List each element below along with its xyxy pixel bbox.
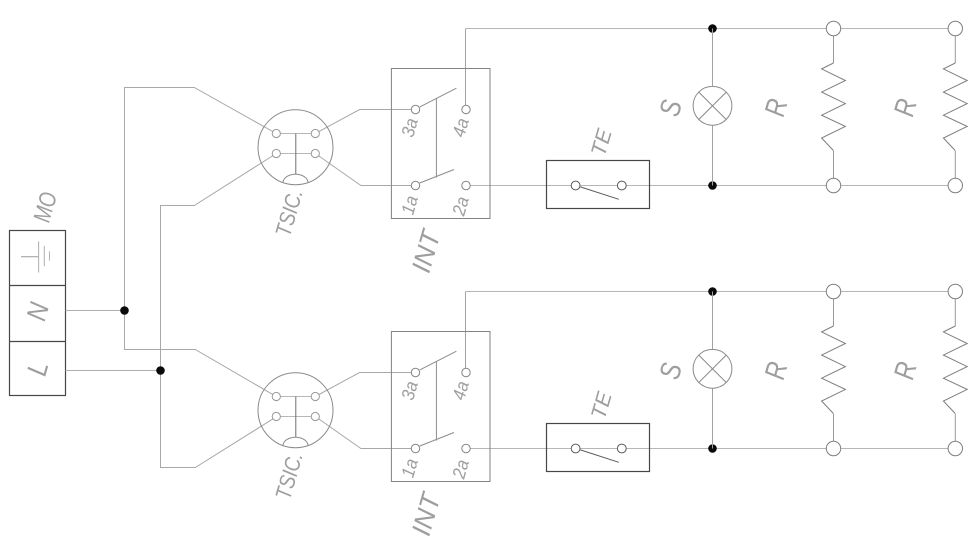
INT (top) contact 4a (462, 105, 470, 113)
connector TSIC (bottom) key lines (280, 397, 311, 438)
junction dot node L (156, 366, 165, 375)
switch TE (bottom) contact left (571, 444, 580, 453)
resistor R1 (top) zigzag (822, 63, 846, 151)
connector TSIC (top) pin 1 (272, 129, 280, 137)
switch INT (top) mechanical link (435, 98, 437, 177)
INT (top) contact 3a (411, 105, 419, 113)
connector TSIC (top) pin 4 (311, 149, 319, 157)
wire net N (to both TSIC connectors) (125, 88, 277, 397)
wire lamp (top) riser (712, 29, 714, 186)
resistor R2 (bottom) zigzag (943, 326, 967, 414)
connector TSIC (top) pin 2 (311, 129, 319, 137)
resistor R2 (bottom) leads (954, 299, 956, 441)
resistor R1 (bottom) zigzag (822, 326, 846, 414)
connector TSIC (bottom) pin 2 (311, 392, 319, 400)
resistor R1 (top) top terminal (826, 21, 840, 35)
resistor R1 (bottom) top terminal (826, 284, 840, 298)
bottom rail (bottom) (466, 448, 955, 450)
junction dot bottom rail (bottom) (708, 444, 717, 453)
bottom rail (top) (466, 185, 955, 187)
ground (PE) symbol in terminal cell (21, 242, 50, 273)
wire TSIC (top) pin to INT (top) 3a (315, 110, 415, 134)
switch INT (bottom) blade 3a (420, 351, 457, 370)
switch TE (top) blade (580, 187, 618, 199)
connector TSIC (bottom) keyway notch (283, 437, 308, 445)
resistor R1 (top) bottom terminal (826, 178, 840, 192)
wire INT (bottom) 4a riser to top rail (465, 292, 467, 373)
terminal block MO (10, 231, 66, 396)
junction dot node N (120, 306, 129, 315)
wire TSIC (top) pin to INT (top) 1a (315, 154, 415, 186)
connector TSIC (top) key lines (280, 134, 311, 175)
wire lamp (bottom) riser (712, 292, 714, 449)
switch INT (top) blade 3a (420, 88, 457, 107)
switch TE (bottom) contact right (617, 444, 626, 453)
resistor R1 (top) leads (833, 36, 835, 178)
top rail (top) (466, 28, 956, 30)
connector TSIC (bottom) pin 4 (311, 412, 319, 420)
switch TE (bottom) blade (580, 450, 618, 462)
top rail (bottom) (466, 291, 956, 293)
INT (top) contact 2a (462, 181, 470, 189)
switch block INT (bottom) box (391, 332, 490, 482)
resistor R2 (bottom) top terminal (948, 284, 962, 298)
switch TE (bottom) box (547, 424, 650, 472)
INT (top) contact 1a (411, 181, 419, 189)
INT (bottom) contact 4a (462, 368, 470, 376)
INT (bottom) contact 3a (411, 368, 419, 376)
lamp S (top) (693, 86, 732, 125)
switch TE (top) box (547, 161, 650, 209)
connector TSIC (bottom) pin 3 (272, 412, 280, 420)
switch TE (top) contact left (571, 181, 580, 190)
connector TSIC (top) pin 3 (272, 149, 280, 157)
wire N from terminal block (66, 310, 125, 312)
wire TSIC (bottom) pin to INT (bottom) 1a (315, 417, 415, 449)
resistor R2 (top) zigzag (943, 63, 967, 151)
wire INT (top) 4a riser to top rail (465, 29, 467, 110)
resistor R1 (bottom) leads (833, 299, 835, 441)
resistor R2 (bottom) bottom terminal (948, 441, 962, 455)
lamp S (bottom) (693, 349, 732, 388)
junction dot bottom rail (top) (708, 181, 717, 190)
resistor R2 (top) bottom terminal (948, 178, 962, 192)
wire L from terminal block (66, 370, 161, 372)
INT (bottom) contact 2a (462, 444, 470, 452)
connector TSIC (bottom) pin 1 (272, 392, 280, 400)
switch INT (bottom) blade 1a (420, 433, 454, 447)
connector TSIC (top) keyway notch (283, 174, 308, 182)
connector TSIC (top) body (258, 110, 333, 185)
INT (bottom) contact 1a (411, 444, 419, 452)
resistor R2 (top) leads (954, 36, 956, 178)
switch block INT (top) box (391, 69, 490, 219)
resistor R2 (top) top terminal (948, 21, 962, 35)
wire net L (to both TSIC connectors) (161, 154, 277, 468)
resistor R1 (bottom) bottom terminal (826, 441, 840, 455)
wire TSIC (bottom) pin to INT (bottom) 3a (315, 373, 415, 397)
switch TE (top) contact right (617, 181, 626, 190)
switch INT (bottom) mechanical link (435, 361, 437, 440)
switch INT (top) blade 1a (420, 170, 454, 184)
junction dot top rail (top) (708, 24, 717, 33)
connector TSIC (bottom) body (258, 373, 333, 448)
junction dot top rail (bottom) (708, 287, 717, 296)
